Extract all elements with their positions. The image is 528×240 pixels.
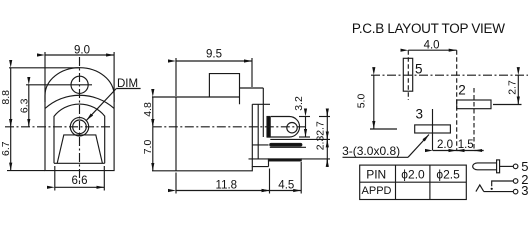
side view body bottom bbox=[176, 167, 269, 171]
svg-text:5.0: 5.0 bbox=[356, 94, 368, 109]
ext line hole center bbox=[26, 84, 92, 86]
chain arrow top bbox=[326, 110, 328, 117]
table column line 2 bbox=[429, 165, 431, 199]
table row line bbox=[360, 181, 467, 183]
DIM leader arrow bbox=[87, 89, 117, 121]
front view vertical center line bbox=[79, 57, 81, 183]
svg-text:7.0: 7.0 bbox=[142, 140, 154, 155]
schematic wire 5 bbox=[500, 165, 514, 167]
ext side body bottom left bbox=[152, 170, 176, 172]
front view inner bottom line bbox=[54, 162, 105, 164]
dim 5.0 line bbox=[373, 75, 375, 129]
svg-text:1.5: 1.5 bbox=[458, 139, 474, 151]
dim 3.2 line bbox=[305, 117, 307, 138]
front view mounting hole circle bbox=[71, 76, 88, 93]
svg-text:6.6: 6.6 bbox=[72, 175, 88, 187]
dim 3.2 ext bottom bbox=[299, 136, 310, 138]
front view horizontal center line bbox=[5, 126, 111, 128]
chain arrow mid up bbox=[326, 139, 328, 146]
dim 4.8 line bbox=[152, 97, 154, 127]
slot leader underline bbox=[343, 156, 409, 158]
chain arrow bottom bbox=[326, 159, 328, 167]
side view middle pin bbox=[270, 143, 302, 146]
side view shoulder top bbox=[240, 87, 264, 89]
dim 9.0 ext left bbox=[44, 52, 46, 102]
schematic switch dot bbox=[491, 188, 493, 190]
dim 1.5 shaft bbox=[457, 150, 484, 152]
dim 9.5 line bbox=[176, 60, 252, 62]
pcb horizontal center line bbox=[371, 74, 528, 76]
pcb slot 5 bbox=[403, 58, 412, 91]
pin hidden line inside bushing bbox=[253, 144, 269, 146]
front view center pin ring outer bbox=[70, 118, 88, 136]
side view bushing tick bbox=[252, 103, 270, 105]
svg-text:2.3: 2.3 bbox=[315, 136, 327, 151]
svg-text:P.C.B LAYOUT TOP VIEW: P.C.B LAYOUT TOP VIEW bbox=[352, 21, 505, 36]
side view lug hole bbox=[287, 123, 297, 133]
side view bottom pin bbox=[269, 159, 302, 161]
svg-text:2: 2 bbox=[458, 83, 466, 98]
svg-text:4.5: 4.5 bbox=[278, 180, 294, 192]
ext line body bottom left bbox=[7, 170, 45, 172]
dim 6.6 line bbox=[55, 186, 105, 188]
chain arrow mid down bbox=[326, 132, 328, 139]
pcb dashed ext mid reference bbox=[456, 50, 458, 150]
dim 6.3 line bbox=[28, 85, 30, 127]
pcb slot 3 bbox=[415, 125, 451, 133]
side view top step bbox=[209, 74, 239, 105]
svg-text:4.8: 4.8 bbox=[142, 102, 154, 117]
slot leader diagonal bbox=[408, 135, 429, 158]
dim 8.8 line bbox=[10, 68, 12, 127]
dim 1.5 right arrow bbox=[474, 150, 483, 152]
side view lug tab fold bar bbox=[267, 117, 270, 138]
dim 4.5 ext right bbox=[300, 162, 302, 194]
dim 4.0 line bbox=[408, 49, 456, 51]
svg-text:2.0: 2.0 bbox=[437, 139, 453, 151]
svg-text:5: 5 bbox=[415, 62, 423, 77]
svg-text:2.7: 2.7 bbox=[315, 121, 327, 136]
side view shoulder right edge bbox=[262, 88, 264, 137]
side view leg shelf line bbox=[249, 158, 269, 160]
dim 11.8/4.5 ext mid bbox=[269, 169, 271, 194]
pin upper ext line bbox=[270, 138, 330, 140]
dim 4.5 line bbox=[270, 190, 302, 192]
svg-text:9.5: 9.5 bbox=[206, 49, 222, 61]
pcb dashed ext slot3 center bbox=[432, 109, 434, 151]
dim 3.2 ext top bbox=[299, 116, 310, 118]
schematic spring contact bbox=[476, 185, 484, 192]
front view flange chord line bbox=[45, 95, 114, 108]
dim 9.0 line bbox=[45, 54, 114, 56]
dim 2.7/2.3 chain shaft bbox=[326, 109, 328, 167]
dim 11.8 line bbox=[176, 190, 270, 192]
schematic barrel flange bbox=[497, 160, 500, 173]
dim 9.5 ext left bbox=[175, 58, 177, 96]
front view inner arch bbox=[54, 104, 105, 163]
dim 2.7pcb ext bbox=[493, 104, 522, 106]
dim 2.7 ext top tick bbox=[319, 116, 330, 118]
dim 2.0 line bbox=[433, 150, 457, 152]
svg-text:8.8: 8.8 bbox=[0, 90, 12, 105]
svg-text:3: 3 bbox=[521, 183, 528, 198]
svg-text:3.2: 3.2 bbox=[293, 96, 305, 111]
side view body top bbox=[176, 96, 240, 98]
side view inner right edge bbox=[251, 104, 253, 166]
schematic terminal circle 5 bbox=[513, 164, 518, 169]
svg-text:3-(3.0x0.8): 3-(3.0x0.8) bbox=[342, 144, 400, 158]
ext line dome top bbox=[9, 67, 80, 69]
svg-text:PIN: PIN bbox=[366, 168, 386, 182]
DIM label underline bbox=[116, 88, 140, 90]
front view outer outline bbox=[45, 68, 114, 171]
dim 5.0 ext bottom bbox=[370, 128, 397, 130]
dim 6.6 ext right bbox=[103, 166, 105, 191]
dim 1.5 left arrow bbox=[457, 150, 465, 152]
table column line 1 bbox=[395, 165, 397, 199]
dim 11.8 ext left bbox=[175, 173, 177, 194]
side view lug tab outline bbox=[267, 117, 300, 138]
svg-text:3: 3 bbox=[415, 107, 423, 122]
svg-text:9.0: 9.0 bbox=[74, 45, 90, 57]
dim 9.0 ext right bbox=[113, 52, 115, 102]
dim 2.3 ext bottom bbox=[301, 158, 330, 160]
table outer box bbox=[360, 165, 467, 199]
dim 6.7 line bbox=[10, 127, 12, 171]
svg-text:ϕ2.0: ϕ2.0 bbox=[401, 168, 425, 182]
svg-text:6.3: 6.3 bbox=[18, 98, 30, 113]
side view bottom leg right edge bbox=[268, 159, 270, 167]
schematic wire 2 bbox=[492, 181, 514, 186]
side view body left edge bbox=[175, 97, 177, 171]
dim 6.6 ext left bbox=[54, 166, 56, 191]
svg-text:ϕ2.5: ϕ2.5 bbox=[436, 168, 460, 182]
svg-text:6.7: 6.7 bbox=[0, 141, 12, 156]
front view trapezoid contact bbox=[57, 135, 102, 163]
dim 2.7pcb line bbox=[517, 75, 519, 104]
front view center pin ring inner bbox=[73, 120, 87, 134]
svg-text:4.0: 4.0 bbox=[424, 40, 440, 52]
svg-text:11.8: 11.8 bbox=[216, 180, 238, 192]
dim 9.5 ext right bbox=[251, 58, 253, 87]
side view center line bbox=[153, 126, 308, 128]
svg-text:DIM: DIM bbox=[117, 78, 138, 90]
schematic barrel symbol bbox=[473, 163, 497, 170]
pin lower thin line bbox=[270, 146, 306, 148]
schematic terminal circle 3 bbox=[513, 189, 518, 194]
schematic wire 3 bbox=[484, 191, 514, 193]
svg-text:APPD: APPD bbox=[362, 185, 392, 197]
dim 7.0 line bbox=[152, 127, 154, 171]
schematic terminal circle 2 bbox=[513, 179, 518, 184]
pcb dashed ext slot2 center bbox=[473, 88, 475, 151]
svg-text:2.7: 2.7 bbox=[507, 80, 519, 95]
ext side body top left bbox=[152, 96, 176, 98]
side view bushing face line bbox=[257, 104, 259, 159]
pcb slot 2 bbox=[457, 100, 491, 109]
pcb dashed ext slot5 center bbox=[407, 50, 409, 100]
